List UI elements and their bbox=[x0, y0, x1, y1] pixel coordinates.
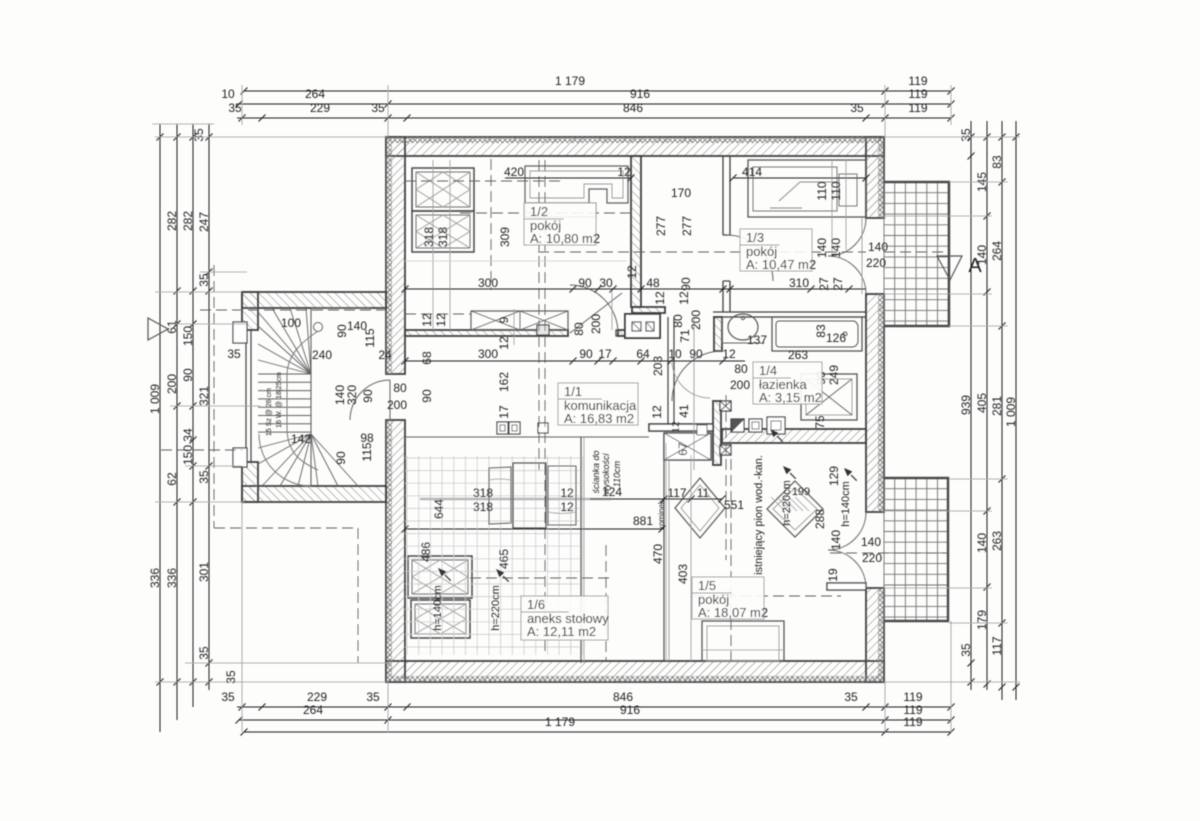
svg-text:35: 35 bbox=[228, 101, 242, 115]
svg-text:19: 19 bbox=[826, 568, 840, 582]
svg-text:istniejący pion wod.-kan.: istniejący pion wod.-kan. bbox=[753, 455, 765, 575]
svg-text:35: 35 bbox=[227, 347, 241, 361]
svg-text:117: 117 bbox=[667, 486, 686, 500]
svg-text:179: 179 bbox=[975, 610, 989, 630]
svg-text:34: 34 bbox=[181, 428, 195, 442]
svg-text:115: 115 bbox=[360, 442, 374, 461]
svg-text:12: 12 bbox=[671, 421, 682, 433]
svg-text:170: 170 bbox=[671, 186, 691, 200]
svg-text:11: 11 bbox=[697, 486, 710, 500]
svg-text:27: 27 bbox=[817, 277, 831, 291]
svg-text:12: 12 bbox=[653, 291, 667, 305]
svg-text:48: 48 bbox=[646, 276, 660, 290]
svg-text:80: 80 bbox=[671, 314, 685, 328]
svg-text:414: 414 bbox=[742, 165, 762, 179]
svg-text:115: 115 bbox=[363, 328, 377, 347]
svg-text:200: 200 bbox=[387, 398, 407, 412]
svg-text:277: 277 bbox=[680, 216, 694, 236]
svg-text:17: 17 bbox=[598, 347, 612, 361]
svg-text:881: 881 bbox=[633, 514, 653, 528]
svg-text:916: 916 bbox=[630, 87, 650, 101]
svg-text:119: 119 bbox=[908, 101, 927, 115]
svg-text:1/6: 1/6 bbox=[527, 597, 545, 612]
svg-text:kominek: kominek bbox=[657, 499, 666, 530]
svg-text:200: 200 bbox=[689, 310, 703, 330]
svg-text:220: 220 bbox=[866, 256, 886, 270]
svg-text:35: 35 bbox=[197, 646, 211, 660]
svg-text:300: 300 bbox=[478, 276, 498, 290]
svg-text:h=220cm: h=220cm bbox=[781, 480, 793, 526]
svg-text:229: 229 bbox=[310, 101, 330, 115]
svg-text:80: 80 bbox=[393, 381, 407, 395]
svg-text:249: 249 bbox=[827, 365, 841, 385]
svg-text:90: 90 bbox=[334, 451, 348, 465]
svg-text:83: 83 bbox=[990, 155, 1004, 169]
svg-text:420: 420 bbox=[504, 165, 524, 179]
svg-text:35: 35 bbox=[844, 690, 858, 704]
svg-text:916: 916 bbox=[620, 703, 640, 717]
svg-text:846: 846 bbox=[623, 101, 643, 115]
svg-text:61: 61 bbox=[165, 320, 179, 334]
svg-text:90: 90 bbox=[361, 389, 375, 403]
svg-text:71: 71 bbox=[678, 329, 692, 343]
svg-text:68: 68 bbox=[420, 351, 434, 365]
svg-text:A: 18,07 m2: A: 18,07 m2 bbox=[698, 605, 768, 620]
svg-text:939: 939 bbox=[959, 395, 973, 415]
svg-text:310: 310 bbox=[789, 276, 809, 290]
svg-text:140: 140 bbox=[861, 535, 881, 549]
svg-text:90: 90 bbox=[420, 389, 434, 403]
svg-text:129: 129 bbox=[827, 466, 841, 486]
svg-text:12: 12 bbox=[677, 291, 691, 305]
svg-text:277: 277 bbox=[654, 216, 668, 236]
svg-text:1/5: 1/5 bbox=[698, 578, 716, 593]
svg-text:229: 229 bbox=[307, 690, 327, 704]
svg-text:309: 309 bbox=[498, 227, 512, 247]
svg-text:67: 67 bbox=[676, 442, 690, 456]
svg-text:318: 318 bbox=[422, 227, 436, 247]
svg-text:90: 90 bbox=[578, 276, 592, 290]
svg-text:12: 12 bbox=[420, 313, 434, 327]
svg-text:140: 140 bbox=[829, 238, 843, 258]
svg-text:470: 470 bbox=[651, 544, 665, 564]
svg-text:200: 200 bbox=[165, 374, 179, 394]
svg-text:1 179: 1 179 bbox=[545, 715, 575, 729]
svg-text:90: 90 bbox=[579, 347, 593, 361]
svg-text:80: 80 bbox=[572, 322, 586, 336]
svg-text:35: 35 bbox=[959, 643, 973, 657]
svg-text:321: 321 bbox=[197, 386, 211, 406]
svg-text:1/4: 1/4 bbox=[759, 363, 777, 378]
svg-text:119: 119 bbox=[908, 87, 927, 101]
svg-text:A: A bbox=[968, 255, 982, 277]
svg-text:1 009: 1 009 bbox=[148, 384, 162, 414]
svg-text:17: 17 bbox=[497, 405, 511, 419]
svg-text:35: 35 bbox=[192, 128, 206, 142]
svg-text:35: 35 bbox=[197, 470, 211, 484]
svg-text:140: 140 bbox=[829, 530, 843, 550]
svg-text:119: 119 bbox=[908, 74, 927, 88]
svg-text:318: 318 bbox=[473, 486, 493, 500]
svg-text:405: 405 bbox=[975, 393, 989, 413]
svg-text:ścianka do: ścianka do bbox=[591, 450, 601, 493]
svg-text:35: 35 bbox=[366, 690, 380, 704]
svg-text:320: 320 bbox=[345, 385, 359, 405]
svg-text:126: 126 bbox=[826, 331, 846, 345]
svg-text:200: 200 bbox=[589, 314, 603, 334]
svg-text:A: 16,83 m2: A: 16,83 m2 bbox=[564, 411, 634, 426]
svg-text:41: 41 bbox=[677, 404, 691, 418]
svg-text:12: 12 bbox=[497, 336, 511, 350]
svg-text:300: 300 bbox=[478, 347, 498, 361]
svg-text:465: 465 bbox=[497, 549, 511, 569]
svg-text:1/3: 1/3 bbox=[746, 230, 764, 245]
svg-text:10: 10 bbox=[221, 87, 235, 101]
svg-text:1/1: 1/1 bbox=[564, 384, 582, 399]
svg-text:119: 119 bbox=[903, 715, 922, 729]
svg-text:140: 140 bbox=[975, 533, 989, 553]
svg-text:62: 62 bbox=[165, 472, 179, 486]
svg-text:486: 486 bbox=[419, 542, 433, 562]
svg-text:282: 282 bbox=[165, 211, 179, 231]
svg-text:12: 12 bbox=[560, 486, 574, 500]
svg-text:150: 150 bbox=[181, 326, 195, 346]
svg-text:10: 10 bbox=[668, 347, 682, 361]
svg-text:288: 288 bbox=[813, 509, 827, 529]
svg-text:30: 30 bbox=[599, 276, 613, 290]
svg-text:282: 282 bbox=[181, 211, 195, 231]
svg-text:35: 35 bbox=[850, 101, 864, 115]
svg-text:162: 162 bbox=[497, 372, 511, 392]
svg-text:336: 336 bbox=[148, 568, 162, 588]
svg-text:12: 12 bbox=[650, 405, 664, 419]
svg-text:140: 140 bbox=[815, 238, 829, 258]
svg-text:35: 35 bbox=[371, 101, 385, 115]
svg-text:35: 35 bbox=[959, 128, 973, 142]
svg-text:142: 142 bbox=[291, 432, 311, 446]
svg-text:12: 12 bbox=[434, 313, 448, 327]
svg-text:644: 644 bbox=[432, 499, 446, 519]
svg-text:200: 200 bbox=[730, 378, 750, 392]
svg-text:35: 35 bbox=[221, 690, 235, 704]
svg-text:h=140cm: h=140cm bbox=[840, 481, 852, 527]
svg-text:12: 12 bbox=[625, 265, 639, 279]
svg-text:110cm: 110cm bbox=[612, 460, 622, 487]
svg-text:12: 12 bbox=[617, 165, 631, 179]
svg-text:100: 100 bbox=[281, 316, 301, 330]
svg-text:90: 90 bbox=[181, 368, 195, 382]
svg-text:A: 3,15 m2: A: 3,15 m2 bbox=[759, 390, 822, 405]
svg-text:247: 247 bbox=[197, 212, 211, 232]
svg-text:551: 551 bbox=[724, 498, 744, 512]
svg-text:240: 240 bbox=[312, 348, 332, 362]
svg-text:264: 264 bbox=[303, 703, 323, 717]
svg-text:220: 220 bbox=[862, 551, 882, 565]
svg-text:263: 263 bbox=[990, 531, 1004, 551]
svg-text:403: 403 bbox=[676, 564, 690, 584]
svg-text:64: 64 bbox=[636, 347, 650, 361]
svg-text:80: 80 bbox=[734, 362, 748, 376]
svg-text:16 W. @ 18|25cm: 16 W. @ 18|25cm bbox=[276, 372, 283, 428]
svg-text:15 Sz @ 26 cm: 15 Sz @ 26 cm bbox=[266, 388, 273, 436]
svg-text:35: 35 bbox=[197, 273, 211, 287]
svg-text:24: 24 bbox=[378, 348, 392, 362]
svg-text:A: 10,47 m2: A: 10,47 m2 bbox=[746, 257, 816, 272]
svg-text:150: 150 bbox=[181, 445, 195, 465]
svg-text:110: 110 bbox=[815, 181, 829, 200]
svg-text:336: 336 bbox=[165, 568, 179, 588]
svg-text:301: 301 bbox=[197, 562, 211, 582]
svg-text:318: 318 bbox=[473, 500, 493, 514]
svg-text:264: 264 bbox=[990, 241, 1004, 261]
svg-text:203: 203 bbox=[651, 356, 665, 376]
svg-text:264: 264 bbox=[305, 87, 325, 101]
svg-text:110: 110 bbox=[829, 181, 843, 200]
svg-text:35: 35 bbox=[224, 670, 238, 684]
svg-text:27: 27 bbox=[831, 277, 845, 291]
svg-text:318: 318 bbox=[436, 227, 450, 247]
svg-text:199: 199 bbox=[792, 486, 810, 498]
svg-text:137: 137 bbox=[747, 333, 767, 347]
svg-text:12: 12 bbox=[722, 347, 736, 361]
svg-text:124: 124 bbox=[602, 485, 622, 499]
svg-text:1 009: 1 009 bbox=[1004, 397, 1018, 427]
svg-text:12: 12 bbox=[560, 500, 574, 514]
svg-text:A: 12,11 m2: A: 12,11 m2 bbox=[527, 624, 596, 639]
svg-text:846: 846 bbox=[613, 690, 633, 704]
svg-text:9: 9 bbox=[497, 316, 511, 323]
svg-text:140: 140 bbox=[868, 240, 888, 254]
svg-text:117: 117 bbox=[990, 636, 1004, 655]
svg-text:119: 119 bbox=[903, 690, 922, 704]
svg-text:263: 263 bbox=[788, 348, 808, 362]
svg-text:90: 90 bbox=[689, 347, 703, 361]
svg-text:h=140cm: h=140cm bbox=[432, 585, 444, 631]
svg-text:A: 10,80 m2: A: 10,80 m2 bbox=[530, 231, 600, 246]
svg-text:90: 90 bbox=[679, 277, 693, 291]
svg-text:281: 281 bbox=[990, 396, 1004, 416]
svg-text:1 179: 1 179 bbox=[555, 74, 585, 88]
svg-text:h=220cm: h=220cm bbox=[490, 585, 502, 631]
svg-text:1/2: 1/2 bbox=[530, 204, 548, 219]
svg-text:75: 75 bbox=[813, 415, 827, 429]
